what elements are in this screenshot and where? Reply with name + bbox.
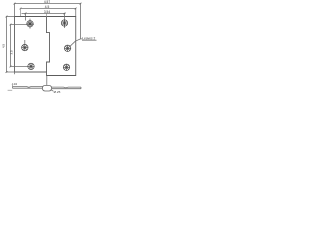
- edge view right leaf bar bottom line: [52, 88, 81, 90]
- svg-text:Leaves 2: Leaves 2: [82, 36, 95, 40]
- centerline top hole row: [11, 24, 34, 26]
- dimension line D3 (hole spacing): [22, 13, 66, 15]
- barrel (knuckle) in edge view: [42, 85, 51, 91]
- extension line right of D2 down to leaf corner: [75, 9, 77, 17]
- centerline hole C vertical: [24, 40, 26, 45]
- edge view left end tick up: [12, 85, 14, 87]
- screw hole F (bottom right): [63, 64, 69, 70]
- edge view left end cap: [12, 87, 14, 89]
- extension tail below bottom-left corner: [14, 72, 16, 74]
- left vertical dimension V1 (overall height): [6, 16, 15, 73]
- edge view left leaf bar top line with countersink dip: [13, 86, 43, 89]
- svg-text:4.57: 4.57: [44, 0, 50, 4]
- screw hole B (top right): [61, 20, 67, 26]
- svg-text:3.54: 3.54: [44, 10, 50, 14]
- hinge leaf outline (plan view): [15, 17, 76, 76]
- extension line left of D2: [20, 9, 22, 17]
- svg-text:.134: .134: [11, 82, 17, 86]
- edge view left leaf bar bottom line: [13, 87, 43, 89]
- centerline hole A vertical: [29, 19, 31, 29]
- pin centerline stub above leaf: [46, 14, 48, 17]
- centerline bottom hole row: [11, 65, 28, 67]
- label Leaves underline: [82, 39, 97, 41]
- pin diameter leader: [51, 90, 54, 92]
- barrel centerline down to edge view: [46, 76, 48, 86]
- svg-text:4.5: 4.5: [45, 5, 50, 9]
- extension line left of D1 down to leaf corner: [14, 4, 16, 17]
- screw hole C (middle left): [22, 44, 28, 50]
- edge view right end cap: [80, 87, 82, 89]
- leader line from hole D to label: [70, 39, 82, 46]
- dimension line D1 top (overall width): [14, 3, 82, 5]
- dimension line D2 (height folded up): [20, 8, 77, 10]
- screw hole D (middle right): [64, 45, 70, 51]
- extension line from D3 to left hole column: [25, 13, 27, 20]
- centerline hole B vertical: [64, 13, 66, 28]
- svg-text:Ø.25: Ø.25: [54, 90, 61, 94]
- screw hole A (top left): [27, 21, 33, 27]
- svg-text:4.5: 4.5: [2, 44, 6, 49]
- leaf thickness tick: [8, 89, 13, 91]
- svg-text:3.5: 3.5: [10, 50, 14, 55]
- left vertical dimension V2 (hole row spacing): [10, 24, 12, 68]
- extension line right of D1: [80, 4, 82, 39]
- edge view right leaf bar top line with countersink dip: [52, 86, 81, 89]
- knuckle seam (castellated center line): [47, 17, 50, 73]
- screw hole E (bottom left): [28, 63, 34, 69]
